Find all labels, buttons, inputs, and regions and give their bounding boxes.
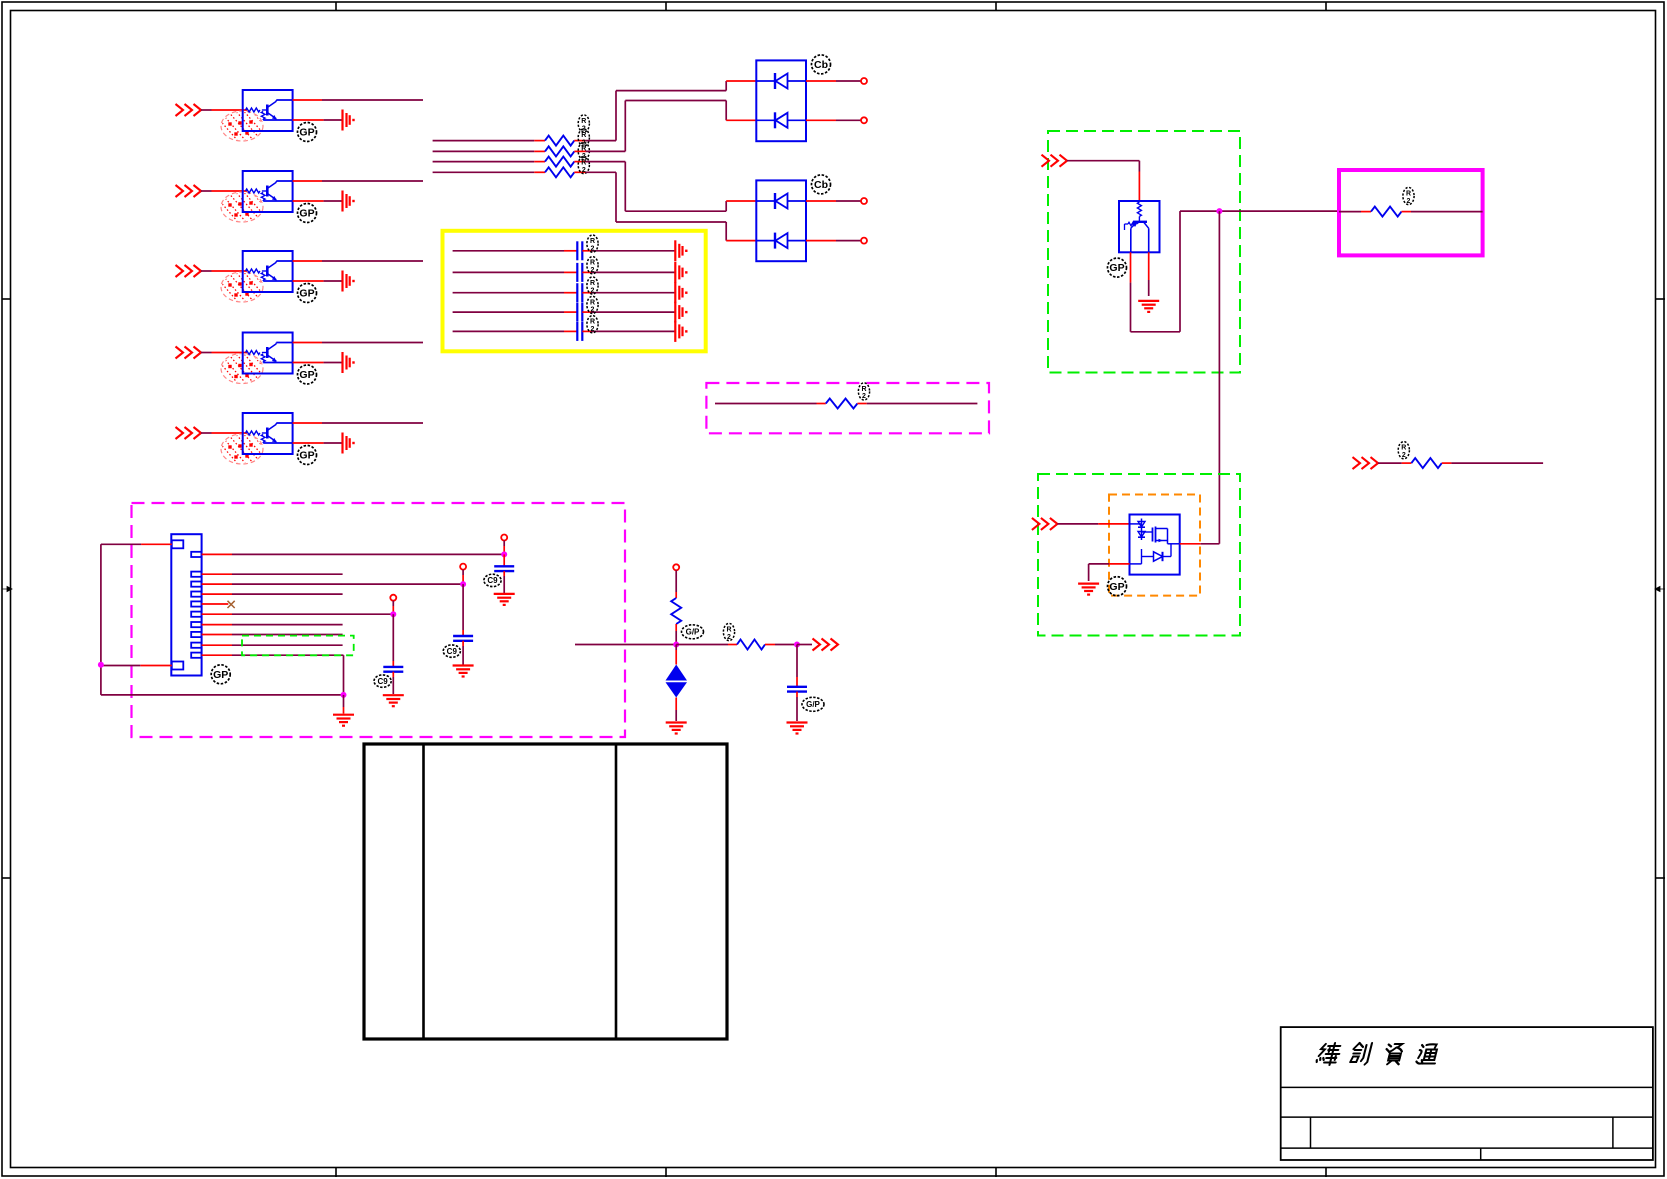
wire R9 to node H <box>765 644 797 646</box>
diode pack D1 <box>756 60 806 141</box>
wire node C to C6 <box>503 554 505 566</box>
wire from R1 <box>574 140 585 142</box>
wire into R1 <box>433 140 545 142</box>
terminal D1.2 <box>861 117 867 123</box>
green dashed sub-box <box>242 636 354 656</box>
wire Q5 emitter <box>293 442 342 444</box>
label Q6 <box>1108 258 1127 277</box>
svg-text:2: 2 <box>591 287 595 294</box>
node F <box>341 692 347 698</box>
wire R3 to bridge D2 pin1 <box>586 162 757 212</box>
wire J1 pin5 <box>202 603 229 605</box>
diode D2.2 <box>756 233 806 249</box>
title block col line 1 <box>1310 1117 1312 1148</box>
wire TVS to ground <box>675 698 677 722</box>
wire from R3 <box>574 161 585 163</box>
label R2 <box>578 129 589 146</box>
svg-text:GP: GP <box>299 127 314 139</box>
svg-text:C9: C9 <box>487 576 498 585</box>
wire to Q1 base <box>201 109 247 111</box>
wire from C4 <box>582 311 674 313</box>
label R6 <box>1403 187 1414 204</box>
label C1 <box>587 235 598 252</box>
terminal T1 <box>501 535 507 541</box>
resistor R1 <box>545 136 574 146</box>
wire D1.1 output <box>806 80 861 82</box>
input port IN5 <box>176 427 202 439</box>
label R9 <box>723 623 734 640</box>
wire Q7 output <box>1180 543 1220 545</box>
wire into R3 <box>433 161 545 163</box>
capacitor C9 <box>787 687 807 692</box>
label Q5 <box>298 446 317 465</box>
wire T2 to node D <box>462 570 464 585</box>
diode D1.2 <box>756 112 806 128</box>
svg-text:2: 2 <box>591 326 595 333</box>
ground at C7 <box>453 666 474 677</box>
wire D2.1 output <box>806 200 861 202</box>
terminal T3 <box>390 595 396 601</box>
orange dashed box <box>1109 495 1200 596</box>
resistor R8 <box>671 598 681 624</box>
svg-text:R: R <box>590 260 595 267</box>
title block frame <box>1281 1027 1653 1160</box>
label C7 <box>443 645 460 657</box>
wire J1 pin7 <box>202 624 343 626</box>
wire node H to OUT <box>797 644 812 646</box>
ground at Q6 <box>1138 301 1159 312</box>
table divider 1 <box>422 744 425 1039</box>
ground at C6 <box>494 594 515 605</box>
resistor R9 <box>737 640 765 650</box>
transistor Q1 <box>243 90 293 131</box>
title block col line 2 <box>1612 1117 1614 1148</box>
wire node G to TVS <box>675 645 677 665</box>
capacitor C5 <box>577 322 582 341</box>
wire J1 pin A1 <box>101 543 172 545</box>
label C8 <box>374 675 391 687</box>
svg-text:2: 2 <box>591 307 595 314</box>
input port IN7 <box>1032 518 1058 530</box>
title block col line 3 <box>1480 1148 1482 1160</box>
svg-text:GP: GP <box>299 288 314 300</box>
resistor R2 <box>545 146 574 156</box>
svg-text:G/P: G/P <box>806 700 820 709</box>
svg-text:R: R <box>590 299 595 306</box>
highlight ellipse on Q5 <box>210 432 278 464</box>
wire C9 to ground <box>796 692 798 721</box>
wire Q6 right pin to ground <box>1148 252 1150 296</box>
wire J1 pin4 <box>202 593 343 595</box>
ground at Q5 emitter <box>343 433 355 454</box>
wire R4 to bridge D2 pin2 <box>586 172 757 240</box>
ground at C9 <box>787 723 808 734</box>
wire Q4 emitter <box>293 362 342 364</box>
diode D2.1 <box>756 193 806 209</box>
wire J1 pin A2 <box>101 665 172 667</box>
terminal D2.1 <box>861 198 867 204</box>
svg-text:2: 2 <box>727 634 731 641</box>
wire node H to C9 <box>796 645 798 687</box>
capacitor C1 <box>577 241 582 260</box>
wire to Q5 base <box>201 432 247 434</box>
wire into R4 <box>433 171 545 173</box>
wire C8 to ground <box>392 672 394 694</box>
svg-text:R: R <box>590 319 595 326</box>
mosfet Q7 <box>1130 515 1180 575</box>
svg-text:G/P: G/P <box>686 628 700 637</box>
terminal D2.2 <box>861 238 867 244</box>
node D <box>460 581 466 587</box>
wire J1 pin10 <box>202 654 344 656</box>
wire pin10 down <box>343 655 345 695</box>
capacitor C8 <box>383 667 403 672</box>
green dashed box lower <box>1038 474 1240 636</box>
terminal T2 <box>460 564 466 570</box>
svg-text:R: R <box>861 386 866 393</box>
wire T3 to node E <box>392 601 394 615</box>
wire node D to C7 <box>462 584 464 636</box>
label R3 <box>578 142 589 159</box>
ground at node F <box>333 715 354 726</box>
wire Q5 collector out <box>293 422 423 424</box>
transistor Q2 <box>243 171 293 212</box>
wire J1 pin6 <box>202 613 394 615</box>
wire from C1 <box>582 250 674 252</box>
svg-text:R: R <box>581 132 586 139</box>
wire Q3 collector out <box>293 260 423 262</box>
wire from R4 <box>574 171 585 173</box>
magenta dash-dot box <box>132 503 626 737</box>
node A <box>1216 208 1222 214</box>
wire stub left <box>575 644 676 646</box>
connector J1 <box>171 534 201 675</box>
transistor Q5 <box>243 413 293 454</box>
ground at C4 <box>675 302 687 323</box>
wire from C5 <box>582 330 674 332</box>
label R8 <box>682 625 704 639</box>
svg-text:R: R <box>581 145 586 152</box>
title block row line 3 <box>1281 1147 1653 1149</box>
wire Q1 collector out <box>293 99 423 101</box>
label C6 <box>484 574 501 586</box>
capacitor C6 <box>494 566 514 571</box>
diode D1.1 <box>756 73 806 89</box>
node H <box>794 642 800 648</box>
wire D1.2 output <box>806 119 861 121</box>
highlight ellipse on Q3 <box>210 270 278 302</box>
svg-text:GP: GP <box>213 669 228 681</box>
highlight ellipse on Q1 <box>210 109 278 141</box>
magenta dashed box <box>706 383 989 433</box>
ground at C3 <box>675 282 687 303</box>
svg-text:2: 2 <box>591 267 595 274</box>
TVS diode Z1 <box>666 665 688 698</box>
node G <box>673 642 679 648</box>
ground at Q3 emitter <box>343 271 355 292</box>
table box <box>364 744 727 1039</box>
svg-text:GP: GP <box>299 450 314 462</box>
wire Q2 collector out <box>293 180 423 182</box>
ground at Q4 emitter <box>343 352 355 373</box>
svg-text:GP: GP <box>299 369 314 381</box>
wire Q6 left pin to net node <box>1131 211 1340 332</box>
wire T4 to R8 <box>675 570 677 598</box>
svg-text:2: 2 <box>862 393 866 400</box>
ground at Z1 <box>666 723 687 734</box>
output port OUT1 <box>813 639 839 651</box>
svg-text:R: R <box>590 280 595 287</box>
svg-text:2: 2 <box>591 245 595 252</box>
wire C7 to ground <box>462 641 464 665</box>
wire into C5 <box>453 330 578 332</box>
label Q1 <box>298 123 317 142</box>
label Q4 <box>298 365 317 384</box>
ground at Q1 emitter <box>343 110 355 131</box>
input port IN8 <box>1353 457 1379 469</box>
wire J1 pin2 <box>202 573 343 575</box>
resistor R5 <box>826 399 858 409</box>
svg-text:GP: GP <box>1109 262 1124 274</box>
resistor R4 <box>545 167 574 177</box>
wire bottom bus <box>101 694 344 696</box>
resistor R3 <box>545 157 574 167</box>
ground at C5 <box>675 321 687 342</box>
input port IN1 <box>176 104 202 116</box>
wire to Q3 base <box>201 270 247 272</box>
wire R8 to node G <box>675 624 677 645</box>
ground at Q2 emitter <box>343 191 355 212</box>
svg-text:GP: GP <box>299 208 314 220</box>
wire into C1 <box>453 250 578 252</box>
svg-text:2: 2 <box>1407 198 1411 205</box>
label C9 <box>802 697 824 711</box>
label C5 <box>587 316 598 333</box>
svg-text:R: R <box>1406 190 1411 197</box>
capacitor C3 <box>577 283 582 302</box>
diode pack D2 <box>756 180 806 261</box>
label C4 <box>587 296 598 313</box>
wire node E to C8 <box>392 614 394 667</box>
wire C6 to ground <box>503 571 505 593</box>
label R1 <box>578 115 589 132</box>
wire J1 pin1 <box>202 553 505 555</box>
svg-text:GP: GP <box>1109 581 1124 593</box>
input port IN6 <box>1042 155 1068 167</box>
wire IN6 to Q6 <box>1067 161 1139 201</box>
wire R2 to bridge D1 pin2 <box>586 101 757 152</box>
wire J1 pin3 <box>202 583 464 585</box>
svg-text:R: R <box>581 118 586 125</box>
input port IN3 <box>176 265 202 277</box>
wire into C3 <box>453 292 578 294</box>
table divider 2 <box>615 744 618 1039</box>
wire IN7 to Q7 <box>1057 523 1129 525</box>
title block row line 1 <box>1281 1086 1653 1088</box>
wire IN8 to R7 <box>1378 462 1411 464</box>
svg-text:R: R <box>1401 445 1406 452</box>
wire from C3 <box>582 292 674 294</box>
transistor Q6 <box>1119 201 1160 252</box>
label C3 <box>587 277 598 294</box>
input port IN2 <box>176 185 202 197</box>
label R4 <box>578 156 589 173</box>
wire from R6 <box>1402 211 1483 213</box>
label R5 <box>858 383 869 400</box>
wire node F to ground <box>343 695 345 714</box>
svg-text:R: R <box>590 238 595 245</box>
wire D2.2 output <box>806 240 861 242</box>
magenta solid box <box>1339 170 1483 255</box>
label C2 <box>587 257 598 274</box>
terminal T4 <box>673 564 679 570</box>
no-connect X on pin5 <box>228 601 235 608</box>
title block row line 2 <box>1281 1116 1653 1118</box>
transistor Q3 <box>243 251 293 292</box>
wire node A down to Q7 <box>1218 211 1220 544</box>
svg-text:Cb: Cb <box>814 59 828 71</box>
ground at C2 <box>675 262 687 283</box>
wire into R6 <box>1339 211 1371 213</box>
ground at C1 <box>675 240 687 261</box>
resistor R7 <box>1411 458 1441 468</box>
wire into R5 <box>715 403 826 405</box>
wire to Q2 base <box>201 190 247 192</box>
ground at C8 <box>383 695 404 706</box>
capacitor C2 <box>577 263 582 282</box>
svg-text:C9: C9 <box>447 647 458 656</box>
svg-text:Cb: Cb <box>814 179 828 191</box>
wire into C4 <box>453 311 578 313</box>
node E <box>390 611 396 617</box>
input port IN4 <box>176 347 202 359</box>
svg-text:2: 2 <box>1402 452 1406 459</box>
wire J1 pin9 <box>202 644 343 646</box>
label D1 <box>812 55 831 74</box>
svg-text:R: R <box>726 626 731 633</box>
label Q3 <box>298 284 317 303</box>
wire Q1 emitter <box>293 119 342 121</box>
resistor R6 <box>1371 207 1402 217</box>
wire left bus down <box>100 544 102 695</box>
transistor Q4 <box>243 333 293 374</box>
wire R1 to bridge D1 pin1 <box>586 81 757 141</box>
logo text Wistron <box>1316 1043 1440 1065</box>
node C <box>501 551 507 557</box>
label Q2 <box>298 204 317 223</box>
label Q7 <box>1108 577 1127 596</box>
svg-text:C9: C9 <box>377 677 388 686</box>
green dashed box upper <box>1048 131 1240 373</box>
wire into C2 <box>453 271 578 273</box>
highlight ellipse on Q2 <box>210 190 278 222</box>
wire Q7 source to ground <box>1089 564 1130 581</box>
wire Q3 emitter <box>293 280 342 282</box>
wire from R5 <box>857 403 977 405</box>
wire into R2 <box>433 150 545 152</box>
svg-text:2: 2 <box>582 167 586 174</box>
capacitor C7 <box>453 636 473 641</box>
svg-text:R: R <box>581 159 586 166</box>
ground at Q7 <box>1078 584 1099 595</box>
wire from R2 <box>574 150 585 152</box>
wire node G to R9 <box>676 644 737 646</box>
wire Q4 collector out <box>293 342 423 344</box>
wire Q2 emitter <box>293 200 342 202</box>
wire J1 pin8 <box>202 634 343 636</box>
wire from C2 <box>582 271 674 273</box>
highlight ellipse on Q4 <box>210 352 278 384</box>
capacitor C4 <box>577 303 582 322</box>
wire T1 to node C <box>503 541 505 555</box>
yellow highlight box <box>443 231 706 351</box>
label R7 <box>1398 442 1409 459</box>
wire to Q4 base <box>201 352 247 354</box>
terminal D1.1 <box>861 78 867 84</box>
wire from R7 <box>1442 462 1543 464</box>
node B <box>98 662 104 668</box>
label D2 <box>812 175 831 194</box>
label J1 <box>211 665 230 684</box>
